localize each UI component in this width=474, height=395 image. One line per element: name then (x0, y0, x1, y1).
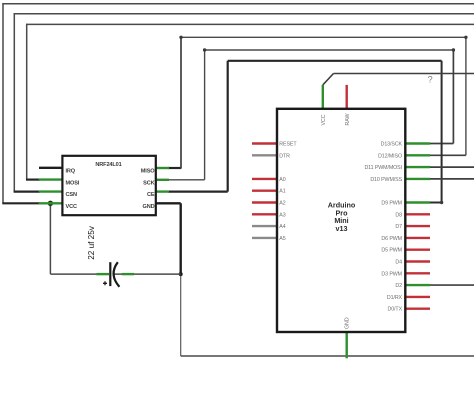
wire GND net vertical lower (180, 274, 182, 356)
svg-text:D2: D2 (395, 283, 402, 289)
svg-text:GND: GND (345, 317, 351, 329)
IC U2 Arduino Pro Mini body (277, 109, 405, 332)
svg-text:D0/TX: D0/TX (387, 307, 402, 313)
label pin CSN (66, 192, 77, 198)
wire GND net vertical upper (179, 203, 181, 274)
wire CE net vertical up (227, 61, 229, 192)
label pin D11 PWM/MOSI (364, 165, 402, 171)
svg-text:A3: A3 (279, 212, 285, 218)
label pin D7 (395, 224, 402, 230)
label pin GND bottom (345, 317, 351, 329)
label pin GND (143, 204, 155, 210)
pin capacitor positive (97, 273, 110, 275)
svg-text:GND: GND (143, 204, 155, 210)
junction MISO bend left (179, 36, 182, 39)
wire CSN net left vertical (13, 13, 15, 192)
pin Arduino D8 (405, 213, 430, 215)
wire MISO net vertical up (180, 37, 182, 168)
svg-text:D7: D7 (395, 224, 402, 230)
wire SCK net to D13 pin (430, 143, 453, 145)
pin Arduino DTR (252, 154, 277, 156)
pin Arduino A2 (252, 201, 277, 203)
svg-text:IRQ: IRQ (66, 168, 76, 174)
pin Arduino D2 (405, 284, 430, 286)
pin Arduino A3 (252, 213, 277, 215)
wire GND net bottom horizontal (181, 355, 474, 357)
wire MOSI net to NRF pin (26, 179, 40, 181)
wire SCK net right vertical (452, 50, 454, 144)
label polarity + (103, 281, 107, 285)
junction SCK bend left (203, 48, 206, 51)
wire CSN net to NRF pin (14, 191, 40, 193)
svg-text:MOSI: MOSI (66, 180, 80, 186)
svg-text:D12/MISO: D12/MISO (378, 153, 402, 159)
label pin D9 PWM (381, 201, 402, 207)
wire Arduino VCC horizontal (334, 73, 474, 75)
label pin MISO (141, 168, 155, 174)
junction D9 bend (440, 201, 443, 204)
svg-text:A2: A2 (279, 201, 285, 207)
svg-text:MISO: MISO (141, 168, 155, 174)
wire IRQ dangling (39, 167, 62, 169)
svg-text:v13: v13 (336, 224, 348, 233)
label pin D4 (395, 260, 402, 266)
pin NRF CSN (39, 190, 63, 192)
pin Arduino D10 (405, 178, 430, 180)
label pin MOSI (66, 180, 80, 186)
wire D10 to right edge (430, 178, 474, 180)
pin NRF VCC (39, 202, 63, 204)
pin Arduino A5 (252, 237, 277, 239)
svg-text:D13/SCK: D13/SCK (381, 142, 403, 148)
wire CE net NRF segment (168, 191, 228, 193)
label pin IRQ (66, 168, 76, 174)
svg-text:RESET: RESET (279, 142, 297, 148)
label pin DTR (279, 153, 290, 159)
svg-text:D1/RX: D1/RX (387, 295, 403, 301)
wire CSN net top horizontal (14, 13, 474, 15)
wire VCC net to NRF pin (2, 202, 40, 204)
svg-text:D3 PWM: D3 PWM (381, 271, 402, 277)
wire MOSI net left vertical (26, 24, 28, 180)
wire SCK net top horizontal (205, 49, 454, 51)
svg-text:RAW: RAW (345, 114, 351, 126)
svg-text:D6 PWM: D6 PWM (381, 236, 402, 242)
pin Arduino D13/SCK (405, 142, 430, 144)
svg-text:?: ? (428, 75, 433, 85)
label pin D2 (395, 283, 402, 289)
wire VCC to capacitor vertical (49, 203, 51, 274)
pin NRF SCK (156, 179, 169, 181)
svg-text:D11 PWM/MOSI: D11 PWM/MOSI (364, 165, 402, 171)
svg-text:22 uf 25v: 22 uf 25v (87, 225, 96, 260)
pin Arduino A4 (252, 225, 277, 227)
capacitor C1 right plate arc (114, 262, 120, 287)
wire MISO net top horizontal (181, 36, 466, 38)
label pin A5 (279, 236, 285, 242)
wire SCK net vertical up (204, 50, 206, 180)
pin NRF CE (156, 190, 169, 192)
label pin D5 PWM (381, 248, 402, 254)
wire CE net top horizontal (228, 60, 442, 62)
pin Arduino D5 (405, 248, 430, 250)
pin NRF MOSI (39, 178, 63, 180)
label value 22 uf 25v (87, 225, 96, 260)
wire MOSI net top horizontal (26, 23, 474, 25)
pin Arduino D6 (405, 237, 430, 239)
IC U1 NRF24L01 body (62, 156, 155, 215)
wire capacitor to GND (113, 273, 181, 275)
svg-text:D4: D4 (395, 260, 402, 266)
label pin A4 (279, 224, 285, 230)
pin Arduino VCC top (322, 85, 324, 109)
pin Arduino D12/MISO (405, 154, 430, 156)
pin Arduino D0/TX (405, 308, 430, 310)
label pin D8 (395, 212, 402, 218)
pin Arduino D11 (405, 166, 430, 168)
svg-text:SCK: SCK (143, 180, 154, 186)
label pin A2 (279, 201, 285, 207)
pin Arduino A1 (252, 189, 277, 191)
pin Arduino A0 (252, 178, 277, 180)
svg-text:D9 PWM: D9 PWM (381, 201, 402, 207)
label pin D0/TX (387, 307, 402, 313)
wire VCC net left vertical (2, 3, 4, 203)
label pin VCC top (321, 114, 327, 125)
svg-text:NRF24L01: NRF24L01 (95, 162, 121, 168)
svg-text:D10 PWM/SS: D10 PWM/SS (370, 177, 402, 183)
pin Arduino D9 (405, 201, 430, 203)
label ? (428, 75, 433, 85)
junction VCC pin dot (48, 201, 53, 206)
pin Arduino RESET (252, 142, 277, 144)
wire GND net NRF segment (156, 202, 181, 204)
pin Arduino D4 (405, 260, 430, 262)
junction MISO bend right (464, 36, 467, 39)
label pin CE (147, 192, 155, 198)
svg-text:VCC: VCC (66, 204, 77, 210)
label pin A0 (279, 177, 285, 183)
junction SCK bend right (452, 48, 455, 51)
wire D11 to right edge (430, 166, 474, 168)
label pin VCC (66, 204, 77, 210)
label pin SCK (143, 180, 154, 186)
wire CE net right vertical (441, 61, 443, 203)
label pin D12/MISO (378, 153, 402, 159)
wire MISO net to D12 pin (430, 154, 466, 156)
svg-text:D8: D8 (395, 212, 402, 218)
pin Arduino GND bottom (346, 332, 348, 358)
svg-text:A1: A1 (279, 189, 285, 195)
wire VCC net top horizontal (2, 3, 474, 5)
svg-text:DTR: DTR (279, 153, 290, 159)
svg-text:D5 PWM: D5 PWM (381, 248, 402, 254)
pin Arduino D3 (405, 272, 430, 274)
pin NRF MISO (156, 167, 169, 169)
label pin A3 (279, 212, 285, 218)
junction GND capacitor (179, 272, 183, 276)
label Arduino title (328, 201, 356, 233)
label NRF24L01 title (95, 162, 121, 168)
svg-text:A5: A5 (279, 236, 285, 242)
pin Arduino D7 (405, 225, 430, 227)
label pin D1/RX (387, 295, 403, 301)
wire CE net to D9 pin (430, 202, 442, 204)
wire SCK net NRF segment (168, 179, 205, 181)
capacitor C1 left plate (109, 262, 111, 286)
pin capacitor negative (122, 273, 134, 275)
label pin D13/SCK (381, 142, 403, 148)
label pin D3 PWM (381, 271, 402, 277)
pin Arduino D1/RX (405, 296, 430, 298)
wire Arduino VCC diagonal (323, 74, 334, 85)
wire D2 to right edge (430, 284, 474, 286)
label pin D10 PWM/SS (370, 177, 402, 183)
svg-text:VCC: VCC (321, 114, 327, 125)
label pin D6 PWM (381, 236, 402, 242)
label pin RESET (279, 142, 297, 148)
wire VCC to capacitor horizontal (50, 273, 97, 275)
svg-text:CE: CE (147, 192, 155, 198)
svg-text:A0: A0 (279, 177, 285, 183)
svg-text:A4: A4 (279, 224, 285, 230)
pin Arduino RAW top (346, 85, 348, 109)
label pin RAW top (345, 114, 351, 126)
label pin A1 (279, 189, 285, 195)
svg-text:CSN: CSN (66, 192, 77, 198)
wire MISO net NRF segment (168, 167, 181, 169)
wire MISO net right vertical (465, 37, 467, 155)
